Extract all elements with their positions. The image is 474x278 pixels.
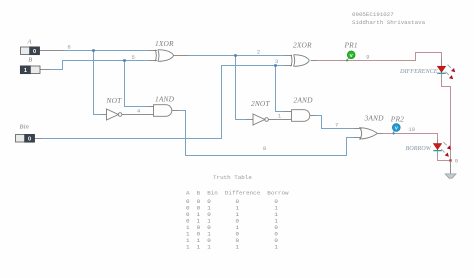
pin stubs 2XOR inputs — [285, 55, 293, 57]
gate NOT — [107, 109, 122, 120]
svg-text:1AND: 1AND — [155, 94, 175, 103]
probe PR1 — [346, 51, 355, 62]
wire net 10 (3AND out to BORROW LED, red) — [383, 134, 438, 140]
svg-text:Siddharth Shrivastava: Siddharth Shrivastava — [352, 19, 426, 26]
input switch A — [21, 47, 40, 55]
svg-text:1XOR: 1XOR — [155, 39, 174, 48]
pin stub 1AND output — [172, 110, 179, 112]
svg-text:1 1 1 1 1: 1 1 1 1 1 — [186, 243, 278, 250]
svg-text:PR2: PR2 — [390, 114, 404, 123]
wire net 9 (2XOR out to DIFFERENCE LED, red) — [317, 53, 442, 61]
svg-text:2XOR: 2XOR — [293, 41, 312, 50]
ground — [445, 161, 456, 178]
wire net 2 branch to 2NOT input — [236, 56, 247, 120]
pin stub BORROW LED anode — [437, 139, 439, 150]
svg-text:A: A — [26, 39, 31, 46]
wire net 5 (B to 1XOR bottom, blue) — [50, 61, 149, 70]
gate 1XOR — [155, 50, 173, 62]
svg-text:8: 8 — [263, 145, 266, 152]
pin stub 2AND top input — [284, 111, 292, 113]
input switch Bin — [16, 134, 35, 142]
svg-text:7: 7 — [335, 122, 338, 129]
wire net 2 (1XOR out to 2XOR top, blue) — [188, 55, 285, 57]
pin stub 1AND top input — [148, 106, 154, 108]
gate 2NOT — [253, 114, 268, 125]
svg-text:Bin: Bin — [19, 124, 28, 131]
node junction net 2 — [234, 54, 237, 57]
svg-text:0: 0 — [28, 137, 31, 143]
wire net 0 (BORROW cathode to ground junction, red) — [438, 154, 451, 161]
pin stub input B — [40, 69, 50, 71]
gate 3AND (OR shape) — [360, 128, 377, 139]
node junction net 5 — [123, 59, 126, 62]
svg-text:1: 1 — [24, 68, 27, 74]
wire net 6 (A to 1XOR top, blue) — [64, 50, 149, 52]
svg-text:PR1: PR1 — [344, 41, 358, 50]
svg-text:10: 10 — [408, 126, 415, 133]
svg-text:Truth Table: Truth Table — [213, 174, 252, 181]
svg-text:2: 2 — [257, 49, 260, 56]
wire net 5 branch to 1AND top input — [125, 61, 148, 107]
pin stub 2AND output — [310, 115, 317, 117]
svg-text:6: 6 — [67, 44, 70, 51]
input switch B — [20, 66, 40, 74]
node junction net 6 — [92, 49, 95, 52]
svg-text:B: B — [28, 56, 32, 63]
pin stub input A — [40, 50, 64, 52]
LED DIFFERENCE — [437, 65, 455, 80]
svg-text:0905EC191027: 0905EC191027 — [352, 11, 394, 18]
svg-text:DIFFERENCE: DIFFERENCE — [399, 68, 438, 75]
pin stubs 1XOR inputs — [149, 50, 158, 52]
gate 1AND — [154, 105, 172, 117]
wire net 4 (NOT out to 1AND bottom, gray) — [122, 114, 154, 116]
wire net 3 (Bin to 2XOR bottom, blue) — [42, 66, 285, 139]
node junction net 3 — [274, 64, 277, 67]
node junction net 0 — [449, 159, 452, 162]
wire net 3 branch to 2AND top input — [276, 66, 285, 112]
LED BORROW — [433, 142, 451, 157]
pin stub input Bin — [35, 138, 42, 140]
text truth table rows — [186, 198, 278, 251]
svg-text:2AND: 2AND — [294, 96, 314, 105]
wire net 7 (2AND out to 3AND top, blue) — [317, 116, 355, 129]
gate 2XOR — [291, 55, 309, 67]
svg-text:NOT: NOT — [106, 96, 123, 105]
pin stub 2NOT input — [246, 119, 253, 121]
pin stub NOT input — [101, 114, 107, 116]
svg-text:BORROW: BORROW — [406, 145, 432, 152]
svg-text:0: 0 — [33, 49, 36, 55]
svg-text:2NOT: 2NOT — [251, 99, 270, 108]
svg-text:9: 9 — [366, 53, 369, 60]
svg-text:5: 5 — [132, 54, 135, 61]
svg-text:3AND: 3AND — [364, 114, 385, 123]
svg-text:A B Bin Difference Borrow: A B Bin Difference Borrow — [186, 190, 289, 197]
pin stub 1XOR output — [174, 55, 189, 57]
pin stubs 3AND inputs — [354, 128, 362, 130]
wire net 6 branch to NOT input — [94, 51, 102, 115]
pin stub 3AND output — [378, 133, 384, 135]
pin stub 2XOR output — [311, 60, 318, 62]
probe PR2 — [392, 124, 400, 135]
wire net 8 (1AND out to 3AND bottom, blue) — [179, 111, 355, 156]
wire net 0 (DIFFERENCE cathode to ground junction, red) — [442, 77, 451, 161]
svg-text:3: 3 — [275, 58, 278, 65]
wire net 1 (2NOT out to 2AND bottom, gray) — [269, 119, 292, 121]
pin stub DIFFERENCE LED anode — [441, 58, 443, 73]
gate 2AND — [292, 110, 310, 122]
